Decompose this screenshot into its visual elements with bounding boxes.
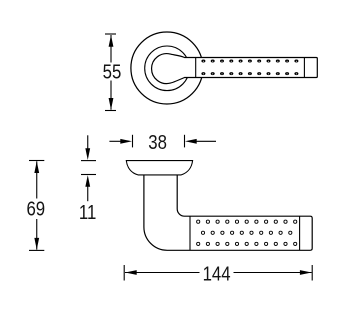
dimension 38: extension ticks xyxy=(132,135,134,148)
dimension 11: lower leader line xyxy=(87,186,89,201)
dimension 38: leader lines xyxy=(109,140,121,142)
lever neck and bar (front view) xyxy=(152,54,318,84)
dimension 38: arrowheads xyxy=(120,139,132,144)
knurl boundary line (front view bar) xyxy=(195,58,197,78)
knurl dot rings side view row 2 xyxy=(201,231,292,234)
dimension 144: extension ticks xyxy=(123,265,125,281)
dimension 69: extension ticks xyxy=(29,160,44,162)
dimension 11: upper leader line xyxy=(87,135,89,149)
dimension 11: lower arrowhead xyxy=(85,175,90,187)
rosette inner circle (front view) xyxy=(145,46,190,91)
dimension 11: upper arrowhead xyxy=(85,148,90,160)
dimension 144: leader lines xyxy=(125,272,200,274)
rosette side profile xyxy=(126,161,192,175)
knurl dots front view row 2 xyxy=(201,72,298,75)
dimension 55: arrowheads xyxy=(109,35,114,47)
dimension 69: arrowheads xyxy=(34,161,39,173)
knurl boundary right line (side view) xyxy=(299,216,301,250)
dimension 55: extension ticks xyxy=(105,33,116,35)
svg-text:55: 55 xyxy=(103,60,122,83)
dimension 11: extension ticks xyxy=(81,160,96,162)
knurl dots front view row 1 xyxy=(201,60,298,63)
svg-text:11: 11 xyxy=(79,200,96,223)
svg-text:38: 38 xyxy=(148,130,167,153)
knurl dot rings side view row 1 xyxy=(197,220,297,223)
knurl boundary left line (side view) xyxy=(189,216,191,250)
dimension 144: arrowheads xyxy=(125,270,137,275)
bar end cap line (front view) xyxy=(303,58,305,78)
svg-text:144: 144 xyxy=(203,262,231,285)
lever silhouette (side view) xyxy=(144,175,312,250)
dimension 69: leader lines xyxy=(36,161,38,198)
svg-text:69: 69 xyxy=(26,197,45,220)
knurl dot rings side view row 3 xyxy=(197,242,297,245)
rosette outer circle (front view) xyxy=(131,32,203,104)
dimension 55: leader lines xyxy=(110,35,112,63)
